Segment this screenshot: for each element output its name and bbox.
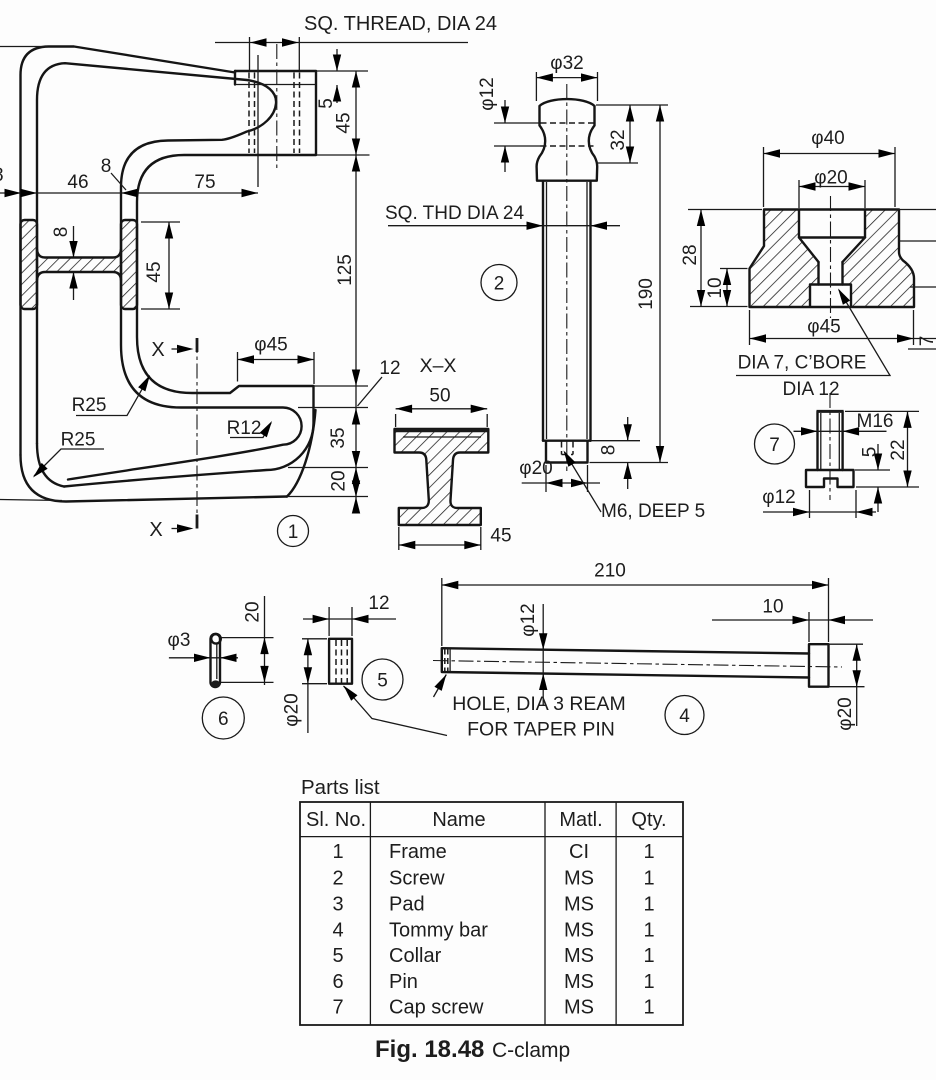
dimension phi20 knob <box>829 644 865 726</box>
balloon 2 <box>481 265 517 301</box>
svg-text:22: 22 <box>888 439 909 460</box>
svg-text:28: 28 <box>680 244 701 265</box>
svg-text:8: 8 <box>0 165 4 186</box>
dimension phi45 pad face <box>238 335 315 385</box>
stud outline <box>818 411 843 470</box>
svg-text:Screw: Screw <box>389 867 445 889</box>
svg-text:R25: R25 <box>72 395 107 416</box>
svg-text:φ20: φ20 <box>835 697 856 730</box>
svg-text:Frame: Frame <box>389 841 447 863</box>
svg-text:190: 190 <box>636 278 657 310</box>
pad outline <box>750 210 915 308</box>
svg-text:MS: MS <box>564 919 594 941</box>
svg-text:4: 4 <box>679 706 690 727</box>
svg-text:MS: MS <box>564 867 594 889</box>
svg-text:2: 2 <box>332 867 343 889</box>
svg-text:HOLE, DIA 3 REAM: HOLE, DIA 3 REAM <box>452 693 625 715</box>
pad part 3 section <box>680 128 936 400</box>
svg-text:12: 12 <box>379 358 400 379</box>
svg-text:7: 7 <box>769 435 780 456</box>
pad counterbore dia 12 <box>810 285 851 307</box>
svg-text:5: 5 <box>860 447 881 458</box>
balloon 6 <box>202 697 244 739</box>
svg-text:12: 12 <box>368 593 389 614</box>
svg-text:Collar: Collar <box>389 945 442 967</box>
frame inner bottom-left corner <box>37 444 64 487</box>
svg-text:φ12: φ12 <box>762 487 795 508</box>
screw centerline <box>566 84 568 471</box>
svg-text:CI: CI <box>569 841 589 863</box>
svg-text:Pin: Pin <box>389 971 418 993</box>
svg-text:1: 1 <box>643 997 654 1019</box>
hidden thread lines in boss <box>248 73 250 154</box>
collar part 5 <box>282 593 448 736</box>
svg-text:1: 1 <box>288 522 299 543</box>
dimension phi12 <box>763 490 876 518</box>
dimension phi20 tip <box>522 465 600 492</box>
svg-text:7: 7 <box>917 336 936 347</box>
dimension phi20 <box>799 180 865 208</box>
svg-text:4: 4 <box>332 919 343 941</box>
label R25 upper with leader <box>72 373 154 416</box>
collar hole leader <box>344 686 448 736</box>
dimension 10 <box>720 269 748 307</box>
svg-text:Sl. No.: Sl. No. <box>306 809 366 831</box>
frame outer profile left and top arm <box>21 47 236 456</box>
frame bottom-left corner and bottom edge <box>21 455 288 502</box>
svg-text:φ45: φ45 <box>254 335 287 356</box>
svg-text:R12: R12 <box>227 418 262 439</box>
pad center hole dia 7 <box>819 262 843 285</box>
svg-text:1: 1 <box>643 841 654 863</box>
svg-text:32: 32 <box>608 129 629 150</box>
screw shank thread crest lines <box>543 181 591 441</box>
boss centerline <box>276 44 278 168</box>
pad recess walls <box>799 210 865 238</box>
svg-text:M16: M16 <box>857 411 894 432</box>
hole note leader <box>434 675 447 698</box>
thread root lines <box>547 182 588 439</box>
svg-text:MS: MS <box>564 945 594 967</box>
svg-text:6: 6 <box>332 971 343 993</box>
dimension 5 <box>855 444 890 512</box>
svg-text:5: 5 <box>316 98 337 109</box>
dimension 28 <box>688 210 762 307</box>
dimension 5 boss spot face <box>316 49 341 109</box>
balloon 5 <box>362 659 403 700</box>
svg-text:8: 8 <box>51 227 72 238</box>
screw head outline <box>537 99 598 181</box>
section X-X I-beam <box>395 355 512 550</box>
balloon 7 <box>755 424 795 464</box>
svg-text:φ20: φ20 <box>519 458 552 479</box>
taper pin hole hidden lines <box>445 649 448 672</box>
svg-text:45: 45 <box>334 112 355 133</box>
dimension 8 web thickness <box>51 226 78 300</box>
svg-text:φ45: φ45 <box>807 317 840 338</box>
cap screw centerline <box>829 393 831 500</box>
svg-text:DIA 7, C’BORE: DIA 7, C’BORE <box>738 353 867 374</box>
svg-text:Qty.: Qty. <box>631 809 666 831</box>
frame revolved I-section web <box>37 250 121 281</box>
svg-text:125: 125 <box>335 254 356 286</box>
frame revolved I-section left flange <box>21 220 38 309</box>
pad hatched material <box>750 210 915 308</box>
dimension 12 <box>303 607 396 636</box>
dimension phi45 <box>750 310 936 345</box>
svg-text:2: 2 <box>494 273 505 294</box>
balloon 4 <box>665 696 704 735</box>
svg-text:MS: MS <box>564 997 594 1019</box>
svg-text:Fig. 18.48: Fig. 18.48 <box>375 1036 484 1063</box>
frame inner profile: left inner edge, arm underside, boss lug, neck inner <box>37 63 302 479</box>
frame revolved I-section right flange <box>121 220 137 309</box>
dimension phi40 <box>764 147 896 207</box>
section cut line X-X <box>149 338 197 541</box>
pad centerline <box>830 196 832 318</box>
dimension 190 overall <box>590 105 669 463</box>
right dimension chain 45 125 12 35 20 <box>0 71 401 514</box>
dimension 45 section height <box>141 222 180 309</box>
right edge extension lines and 7 <box>896 210 936 350</box>
flange with slot <box>806 470 854 487</box>
svg-text:φ12: φ12 <box>518 603 539 636</box>
dimension M16 <box>794 430 887 432</box>
svg-text:X–X: X–X <box>420 355 457 377</box>
label 8 rib thickness with leader <box>101 156 126 190</box>
svg-text:46: 46 <box>67 172 88 193</box>
parts list table <box>300 776 683 1025</box>
knob at right end <box>809 644 829 687</box>
svg-text:1: 1 <box>643 971 654 993</box>
label R12 with leader <box>227 418 276 439</box>
svg-text:X: X <box>151 339 164 361</box>
svg-text:1: 1 <box>643 945 654 967</box>
dimension 32 head height <box>597 105 638 163</box>
svg-text:Tommy bar: Tommy bar <box>389 919 488 941</box>
svg-text:FOR TAPER PIN: FOR TAPER PIN <box>467 719 615 741</box>
balloon 1 <box>278 516 309 547</box>
svg-text:M6, DEEP 5: M6, DEEP 5 <box>601 501 705 522</box>
svg-text:C-clamp: C-clamp <box>492 1039 570 1062</box>
dimension 46 and 75 baseline <box>0 55 258 197</box>
frame part 1 <box>0 44 316 502</box>
svg-text:35: 35 <box>328 427 349 448</box>
dimension 45 <box>399 527 481 550</box>
svg-text:45: 45 <box>490 526 511 547</box>
dimension 8 tip <box>592 417 641 489</box>
svg-text:10: 10 <box>705 277 726 298</box>
svg-text:R25: R25 <box>61 430 96 451</box>
label SQ. THREAD, DIA 24 with leader and dia 24 arrows <box>215 13 497 70</box>
dimension 10 <box>712 612 873 642</box>
dimension 50 <box>396 409 488 427</box>
svg-text:1: 1 <box>643 893 654 915</box>
svg-text:10: 10 <box>762 597 783 618</box>
svg-text:20: 20 <box>243 601 264 622</box>
dimension 22 <box>845 411 919 487</box>
frame jaw nose outer arc <box>287 410 316 497</box>
svg-text:3: 3 <box>332 893 343 915</box>
svg-text:8: 8 <box>101 156 112 177</box>
svg-text:5: 5 <box>332 945 343 967</box>
dimension phi20 <box>302 639 327 733</box>
tommy bar part 4 <box>433 561 873 741</box>
svg-text:50: 50 <box>429 386 450 407</box>
M6 tapped hole hidden lines <box>562 442 574 455</box>
dimension phi3 <box>169 657 238 659</box>
hidden hole lines in head <box>541 123 594 146</box>
boss spot-face line <box>235 84 316 86</box>
dimension phi32 <box>536 72 597 101</box>
frame top edge extension to canvas edge <box>0 46 48 48</box>
dimension 20 <box>221 596 274 685</box>
svg-text:5: 5 <box>377 670 388 691</box>
svg-text:φ40: φ40 <box>811 128 844 149</box>
svg-text:210: 210 <box>594 561 626 582</box>
svg-text:φ20: φ20 <box>282 693 303 726</box>
svg-text:φ12: φ12 <box>477 77 498 110</box>
svg-text:MS: MS <box>564 893 594 915</box>
bar centerline <box>433 661 842 668</box>
frame boss and throat right profile down to jaw <box>64 71 316 487</box>
svg-text:8: 8 <box>599 445 620 456</box>
stud thread root lines <box>821 413 840 469</box>
svg-text:φ3: φ3 <box>168 630 191 651</box>
screw part 2 <box>385 53 705 522</box>
svg-text:45: 45 <box>144 261 165 282</box>
boss left edge <box>234 71 236 85</box>
svg-text:Cap screw: Cap screw <box>389 997 484 1019</box>
figure caption <box>375 1036 570 1063</box>
svg-text:Pad: Pad <box>389 893 425 915</box>
dimension phi12 cross hole <box>494 100 541 172</box>
thread end step <box>543 440 591 442</box>
svg-text:6: 6 <box>218 709 229 730</box>
svg-text:X: X <box>149 519 162 541</box>
svg-text:φ32: φ32 <box>550 53 583 74</box>
svg-text:MS: MS <box>564 971 594 993</box>
svg-text:Name: Name <box>432 809 485 831</box>
svg-text:1: 1 <box>643 919 654 941</box>
pad cone seat <box>799 238 865 263</box>
svg-text:1: 1 <box>332 841 343 863</box>
svg-text:Parts list: Parts list <box>301 776 380 799</box>
label R25 lower with leader <box>30 430 104 481</box>
bar outline <box>442 648 809 677</box>
svg-text:φ20: φ20 <box>814 168 847 189</box>
svg-text:7: 7 <box>332 997 343 1019</box>
screw tip <box>546 441 588 463</box>
dimension phi12 bar <box>542 604 544 705</box>
cap screw part 7 <box>755 393 920 518</box>
pin part 6 <box>168 596 274 739</box>
svg-text:1: 1 <box>643 867 654 889</box>
svg-text:Matl.: Matl. <box>559 809 602 831</box>
dimension 210 <box>442 578 829 646</box>
svg-text:75: 75 <box>194 172 215 193</box>
svg-text:20: 20 <box>329 470 350 491</box>
svg-text:SQ. THREAD, DIA 24: SQ. THREAD, DIA 24 <box>304 13 497 35</box>
svg-text:SQ. THD DIA 24: SQ. THD DIA 24 <box>385 203 524 224</box>
svg-text:DIA 12: DIA 12 <box>782 379 839 400</box>
